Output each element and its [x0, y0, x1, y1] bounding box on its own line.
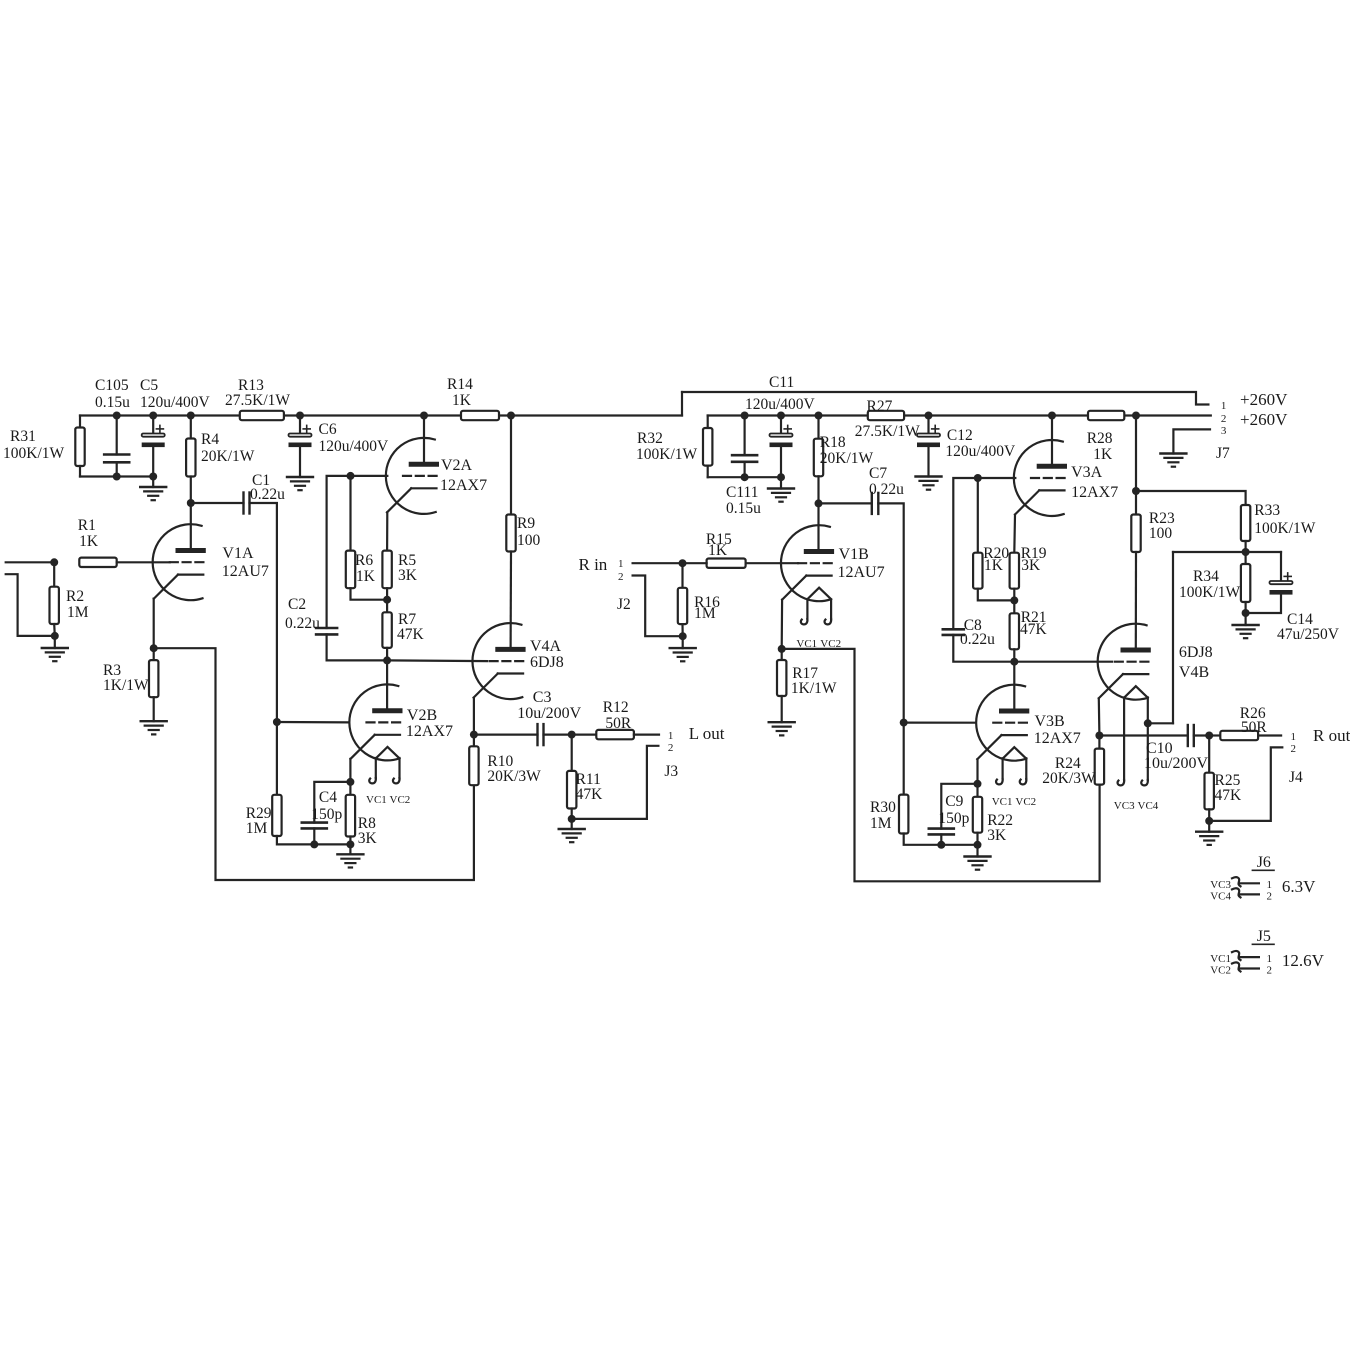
wire	[940, 834, 942, 844]
wire	[1209, 734, 1220, 736]
label VC3 (V4B)	[1114, 800, 1135, 812]
resistor R6	[346, 551, 355, 589]
wire	[1208, 821, 1210, 832]
label R13 value	[225, 392, 290, 409]
label R22	[987, 812, 1013, 829]
wire	[746, 562, 799, 564]
wire	[116, 416, 118, 455]
svg-text:20K/1W: 20K/1W	[201, 448, 255, 465]
svg-text:20K/3W: 20K/3W	[1042, 770, 1096, 787]
label R30	[870, 799, 896, 816]
resistor R11	[567, 771, 576, 809]
wire	[1244, 541, 1246, 552]
connector J5 pin2 hook	[1232, 962, 1241, 971]
resistor R26	[1220, 731, 1258, 740]
label VC2 (V1B)	[820, 638, 841, 650]
label VC2 (V2B)	[390, 794, 411, 806]
ground	[337, 854, 363, 867]
label R5 value	[398, 567, 418, 584]
wire	[510, 416, 512, 515]
svg-text:R33: R33	[1254, 502, 1280, 519]
wire	[780, 416, 782, 434]
wire	[1172, 552, 1174, 723]
wire	[351, 588, 388, 600]
label R16	[694, 594, 720, 611]
label C12	[947, 427, 973, 444]
svg-text:47K: 47K	[397, 626, 425, 643]
ground	[965, 857, 991, 870]
svg-text:100K/1W: 100K/1W	[636, 446, 698, 463]
ground	[670, 648, 696, 661]
svg-text:C9: C9	[945, 793, 963, 810]
heater lead VC2 (V1B)	[825, 600, 832, 625]
node junction	[113, 473, 121, 481]
label C5	[140, 377, 158, 394]
resistor R17	[777, 660, 786, 696]
wire	[1246, 595, 1281, 613]
ground	[559, 829, 585, 842]
capacitor C12	[917, 425, 940, 447]
resistor R18	[814, 439, 823, 477]
node junction	[925, 412, 933, 420]
capacitor C7	[872, 493, 879, 514]
node junction	[1205, 732, 1213, 740]
heater lead VC3 (V4B)	[1118, 698, 1125, 786]
svg-text:0.22u: 0.22u	[285, 615, 320, 632]
svg-text:12AX7: 12AX7	[1034, 730, 1081, 747]
svg-text:VC2: VC2	[1210, 965, 1231, 977]
wire	[707, 466, 709, 478]
svg-text:120u/400V: 120u/400V	[945, 443, 1016, 460]
node junction	[815, 499, 823, 507]
wire	[1208, 736, 1210, 773]
svg-text:1: 1	[618, 558, 624, 570]
wire	[682, 636, 684, 648]
wire C11 line	[682, 392, 1208, 405]
svg-text:VC2: VC2	[390, 794, 411, 806]
resistor R13	[240, 411, 284, 420]
node junction	[187, 412, 195, 420]
capacitor C5	[142, 425, 165, 447]
svg-text:1K: 1K	[452, 392, 472, 409]
node junction	[346, 778, 354, 786]
capacitor C6	[289, 425, 312, 447]
heater lead VC4 (V4B)	[1141, 698, 1148, 786]
wire heater-bias	[1148, 722, 1173, 724]
label J5	[1257, 928, 1271, 945]
label J7 pin3	[1221, 425, 1227, 437]
capacitor C1	[244, 493, 250, 514]
svg-text:1: 1	[1267, 879, 1273, 891]
wire	[1098, 736, 1100, 749]
label R2 value	[67, 604, 89, 621]
svg-text:2: 2	[1221, 413, 1227, 425]
svg-text:1: 1	[1267, 953, 1273, 965]
label R9	[517, 515, 535, 532]
resistor R27	[868, 411, 904, 420]
svg-text:0.22u: 0.22u	[960, 631, 995, 648]
wire	[349, 837, 351, 845]
label VC3 (J6)	[1210, 879, 1231, 891]
svg-text:J3: J3	[664, 763, 678, 780]
connector J7 pin3	[1173, 429, 1210, 453]
svg-text:J5: J5	[1257, 928, 1271, 945]
wire	[250, 503, 277, 722]
wire	[1244, 602, 1246, 613]
label C7 value	[869, 481, 904, 498]
svg-text:100: 100	[1149, 525, 1173, 542]
svg-text:R31: R31	[10, 428, 36, 445]
svg-text:3K: 3K	[358, 830, 378, 847]
svg-text:27.5K/1W: 27.5K/1W	[225, 392, 290, 409]
node junction	[1048, 412, 1056, 420]
connector J6 pin2 hook	[1232, 888, 1241, 897]
label R28 value	[1093, 446, 1113, 463]
resistor R22	[973, 797, 982, 833]
svg-text:V3B: V3B	[1035, 713, 1065, 730]
label V2B type	[406, 723, 453, 740]
wire	[313, 828, 315, 844]
node junction	[1010, 658, 1018, 666]
node junction	[778, 645, 786, 653]
label J4 pin2	[1291, 743, 1297, 755]
label V3B type	[1034, 730, 1081, 747]
svg-text:47K: 47K	[1020, 621, 1048, 638]
label R in	[579, 555, 608, 574]
wire	[1194, 734, 1209, 736]
node junction	[383, 656, 391, 664]
wire	[1244, 613, 1246, 625]
node junction	[50, 558, 58, 566]
label V4B type	[1179, 644, 1213, 661]
label R32 value	[636, 446, 698, 463]
resistor R12	[596, 730, 634, 739]
connector J3 return	[572, 746, 659, 819]
wire	[473, 735, 475, 747]
wire V3B plate lead	[1013, 662, 1015, 711]
label V2B	[407, 707, 437, 724]
label C3 value	[517, 705, 581, 722]
connector J6 pin1 hook	[1232, 877, 1241, 886]
svg-text:J2: J2	[617, 596, 631, 613]
label R16 value	[694, 605, 716, 622]
label R23 value	[1149, 525, 1173, 542]
label R34	[1193, 568, 1219, 585]
label R13	[238, 377, 264, 394]
wire	[153, 648, 155, 660]
label C2	[288, 596, 306, 613]
wire	[1280, 552, 1282, 581]
connector J6 pin1	[1240, 882, 1259, 884]
wire	[349, 476, 351, 551]
wire	[53, 562, 55, 586]
label J6 pin2 no	[1267, 891, 1273, 903]
label VC2 (V3B)	[1015, 796, 1036, 808]
svg-text:2: 2	[1291, 743, 1297, 755]
svg-text:C12: C12	[947, 427, 973, 444]
svg-text:R out: R out	[1313, 726, 1350, 745]
svg-text:VC1: VC1	[992, 796, 1013, 808]
svg-text:1: 1	[1221, 400, 1227, 412]
node junction	[937, 841, 945, 849]
wire	[904, 834, 978, 845]
node junction	[507, 412, 515, 420]
resistor R28	[1088, 411, 1124, 420]
svg-text:C5: C5	[140, 377, 158, 394]
svg-text:12AX7: 12AX7	[406, 723, 453, 740]
wire	[276, 722, 278, 795]
svg-text:J4: J4	[1289, 769, 1303, 786]
label R33	[1254, 502, 1280, 519]
label R1 value	[79, 533, 99, 550]
capacitor C4	[302, 823, 327, 829]
resistor R21	[1010, 613, 1019, 649]
wire	[976, 833, 978, 845]
svg-text:100: 100	[517, 532, 541, 549]
svg-text:C2: C2	[288, 596, 306, 613]
wire	[781, 649, 783, 660]
label R27 value	[855, 423, 920, 440]
label J3	[664, 763, 678, 780]
connector J1 return	[6, 574, 55, 636]
connector J6 pin2	[1240, 893, 1259, 895]
wire	[817, 476, 819, 503]
label C14 value	[1277, 626, 1340, 643]
svg-text:1K: 1K	[356, 568, 376, 585]
wire	[386, 588, 388, 612]
wire V2B grid lead	[277, 721, 349, 724]
label C105	[95, 377, 129, 394]
resistor R30	[899, 795, 908, 834]
svg-text:R28: R28	[1087, 430, 1113, 447]
node junction	[777, 412, 785, 420]
wire	[349, 759, 351, 782]
wire	[152, 416, 154, 434]
label C9	[945, 793, 963, 810]
label C12 value	[945, 443, 1016, 460]
label R33 value	[1254, 520, 1316, 537]
wire	[953, 635, 1014, 662]
svg-text:6.3V: 6.3V	[1282, 877, 1316, 896]
label R18	[820, 434, 846, 451]
svg-text:3K: 3K	[1021, 557, 1041, 574]
wire B+ rail left	[80, 414, 682, 416]
wire	[681, 563, 683, 588]
svg-text:2: 2	[668, 742, 674, 754]
node junction	[568, 731, 576, 739]
svg-text:12AX7: 12AX7	[1071, 484, 1118, 501]
svg-text:V4A: V4A	[530, 638, 562, 655]
wire	[708, 476, 781, 478]
heater lead VC2 (V2B)	[393, 758, 400, 783]
node junction	[815, 412, 823, 420]
wire	[386, 512, 388, 550]
resistor R25	[1205, 773, 1214, 810]
svg-text:1K/1W: 1K/1W	[791, 680, 837, 697]
wire	[153, 599, 155, 649]
wire	[976, 845, 978, 857]
label C2 value	[285, 615, 320, 632]
node junction	[1242, 548, 1250, 556]
wire	[79, 416, 81, 428]
label R28	[1087, 430, 1113, 447]
svg-text:R12: R12	[603, 699, 629, 716]
wire	[190, 477, 192, 504]
svg-text:V2B: V2B	[407, 707, 437, 724]
capacitor C3	[538, 724, 544, 745]
label R30 value	[870, 815, 892, 832]
wire	[1208, 809, 1210, 821]
label R4	[201, 431, 219, 448]
resistor R2	[50, 587, 59, 624]
wire	[314, 782, 350, 823]
svg-text:VC4: VC4	[1138, 800, 1159, 812]
node junction	[900, 719, 908, 727]
node junction	[1144, 719, 1152, 727]
wire	[1244, 552, 1246, 564]
svg-text:120u/400V: 120u/400V	[319, 438, 390, 455]
svg-text:20K/3W: 20K/3W	[487, 768, 541, 785]
label R23	[1149, 510, 1175, 527]
label C4 value	[311, 806, 342, 823]
tube V3A	[1014, 440, 1067, 516]
svg-text:V1A: V1A	[222, 545, 254, 562]
svg-text:50R: 50R	[605, 715, 632, 732]
label 12.6V	[1282, 951, 1325, 970]
wire	[1013, 649, 1015, 661]
svg-text:J7: J7	[1216, 445, 1230, 462]
svg-text:6DJ8: 6DJ8	[530, 654, 564, 671]
connector J4 return	[1209, 747, 1282, 821]
wire	[681, 624, 683, 636]
wire	[819, 502, 872, 504]
svg-text:C4: C4	[319, 789, 337, 806]
wire V2A plate lead	[423, 416, 425, 465]
svg-text:C3: C3	[533, 689, 552, 706]
label VC1 (J5)	[1210, 953, 1231, 965]
node junction	[974, 474, 982, 482]
resistor R24	[1095, 749, 1104, 785]
wire	[154, 648, 474, 880]
heater lead VC1 (V3B)	[996, 758, 1003, 784]
svg-text:C105: C105	[95, 377, 129, 394]
svg-text:C111: C111	[726, 484, 758, 501]
resistor R9	[506, 515, 515, 552]
capacitor C8	[943, 629, 964, 635]
label R7 value	[397, 626, 425, 643]
label R1	[78, 517, 96, 534]
label VC2 (J5)	[1210, 965, 1231, 977]
node junction	[470, 731, 478, 739]
wire	[386, 648, 388, 661]
wire	[152, 448, 154, 487]
label V3A type	[1071, 484, 1118, 501]
label J4	[1289, 769, 1303, 786]
node junction	[741, 473, 749, 481]
label J6	[1257, 854, 1271, 871]
label C1 value	[250, 486, 285, 503]
node junction	[347, 472, 355, 480]
wire	[634, 733, 659, 735]
label C3	[533, 689, 552, 706]
label C6	[319, 421, 337, 438]
ground	[42, 648, 68, 661]
wire	[153, 697, 155, 721]
label R21 value	[1020, 621, 1048, 638]
tube V4A	[472, 623, 525, 699]
wire input L	[6, 561, 55, 563]
label R15 value	[708, 542, 728, 559]
node junction	[1132, 487, 1140, 495]
label R10 value	[487, 768, 541, 785]
svg-text:R14: R14	[447, 376, 473, 393]
heater lead VC2 (V3B)	[1020, 758, 1027, 784]
label C5 value	[140, 394, 211, 411]
label VC1 (V1B)	[796, 638, 817, 650]
wire	[683, 562, 707, 564]
svg-text:R18: R18	[820, 434, 846, 451]
label C6 value	[319, 438, 390, 455]
svg-text:0.15u: 0.15u	[726, 500, 761, 517]
node junction	[149, 412, 157, 420]
label R31	[10, 428, 36, 445]
svg-text:27.5K/1W: 27.5K/1W	[855, 423, 920, 440]
wire	[349, 782, 351, 795]
tube V3B	[976, 685, 1029, 761]
resistor R23	[1131, 515, 1140, 553]
svg-text:12AX7: 12AX7	[440, 477, 487, 494]
resistor R20	[973, 553, 982, 589]
label R22 value	[987, 827, 1007, 844]
node junction	[974, 780, 982, 788]
label R25 value	[1215, 787, 1243, 804]
tube V4B	[1098, 624, 1151, 700]
svg-text:50R: 50R	[1241, 719, 1268, 736]
capacitor C2	[316, 628, 337, 634]
svg-text:120u/400V: 120u/400V	[140, 394, 211, 411]
ground	[287, 477, 313, 490]
wire	[1013, 589, 1015, 614]
label R15	[706, 531, 732, 548]
wire	[878, 503, 903, 722]
wire	[780, 448, 782, 489]
wire V3A plate lead	[1051, 416, 1053, 467]
svg-text:3K: 3K	[987, 827, 1007, 844]
label J4 pin1	[1291, 731, 1297, 743]
wire	[743, 462, 745, 477]
label V1A type	[222, 563, 269, 580]
resistor R31	[75, 428, 84, 467]
label C8 value	[960, 631, 995, 648]
svg-text:VC4: VC4	[1210, 891, 1231, 903]
label R out	[1313, 726, 1350, 745]
label R6 value	[356, 568, 376, 585]
label R8	[358, 815, 376, 832]
label V4B	[1179, 664, 1209, 681]
svg-text:J6: J6	[1257, 854, 1271, 871]
capacitor C105	[104, 455, 129, 463]
label J5 pin1 no	[1267, 953, 1273, 965]
svg-text:R4: R4	[201, 431, 219, 448]
label R14	[447, 376, 473, 393]
wire	[978, 589, 1015, 601]
label R20	[983, 545, 1009, 562]
label R19	[1021, 545, 1047, 562]
label R4 value	[201, 448, 255, 465]
node junction	[679, 559, 687, 567]
wire	[572, 733, 597, 735]
svg-text:V4B: V4B	[1179, 664, 1209, 681]
